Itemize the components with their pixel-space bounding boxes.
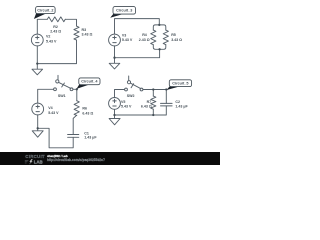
svg-text:Circuit_2: Circuit_2 [37, 8, 53, 12]
svg-text:R7: R7 [147, 100, 152, 104]
wire: C3 source bottom [114, 46, 116, 58]
node: C4 switch-R6 junction [76, 88, 78, 90]
resistor R6 [74, 101, 79, 116]
svg-text:6.43 Ω: 6.43 Ω [82, 111, 93, 115]
node: C3 top bus junction [158, 24, 160, 26]
svg-text:CIRCUIT: CIRCUIT [25, 154, 45, 159]
svg-text:R6: R6 [82, 106, 87, 110]
svg-text:5.43 V: 5.43 V [122, 38, 133, 42]
svg-text:Circuit_4: Circuit_4 [81, 80, 98, 84]
resistor R4 [151, 30, 156, 45]
svg-text:SW1: SW1 [58, 94, 66, 98]
wire: C3 left vertical + top rail [115, 19, 160, 34]
ground (C5) [109, 115, 120, 125]
svg-text:V4: V4 [48, 106, 52, 110]
resistor R7 [151, 96, 156, 109]
wire: C2 left vertical source-top to top rail [37, 19, 47, 34]
node: C3 ground junction [113, 57, 115, 59]
svg-text:R4: R4 [142, 33, 147, 37]
svg-text:http://circuitlab.com/c/paq362: http://circuitlab.com/c/paq36255d2c7 [47, 158, 105, 162]
voltage source V2 [31, 34, 43, 46]
node: C5 R7 top junction [152, 88, 154, 90]
svg-text:V3: V3 [122, 33, 126, 37]
node label Circuit_3 flag [110, 13, 124, 17]
svg-text:5.43 V: 5.43 V [48, 111, 59, 115]
svg-text:6.43 Ω: 6.43 Ω [141, 105, 152, 109]
ground (C2) [32, 64, 43, 75]
node label Circuit_4 box [79, 78, 100, 85]
svg-text:Circuit_5: Circuit_5 [172, 82, 188, 86]
node: C5 cap top junction [165, 88, 167, 90]
node: C3 bottom bus junction [158, 48, 160, 50]
node label Circuit_4 flag [77, 84, 90, 89]
ground (C4) [32, 128, 43, 137]
wire: C4 C1 bottom loop back to source [38, 128, 73, 148]
svg-text:R3: R3 [82, 28, 87, 32]
node label Circuit_2 flag [34, 13, 47, 19]
resistor R3 [74, 26, 79, 40]
wire: C4 source bottom [37, 115, 39, 128]
wire: C5 source top up and right to switch [115, 90, 125, 98]
switch SW2 [125, 88, 128, 91]
node: C5 R7 bottom junction [152, 114, 154, 116]
svg-text:R5: R5 [171, 33, 176, 37]
voltage source V5 [109, 98, 121, 110]
wire: C5 R7 drop [152, 90, 154, 97]
svg-text:3.43 Ω: 3.43 Ω [82, 32, 93, 36]
wire: C5 R7 bottom [152, 109, 154, 115]
wire: C4 source top up and right to switch [38, 89, 54, 103]
svg-text:5.43 V: 5.43 V [121, 105, 132, 109]
wire: C5 source bottom [114, 109, 116, 115]
node label Circuit_5 flag [167, 86, 181, 90]
svg-text:5.43 V: 5.43 V [46, 40, 57, 44]
svg-text:1.43 µF: 1.43 µF [175, 104, 188, 108]
voltage source V3 [109, 34, 121, 46]
svg-text:3.43 Ω: 3.43 Ω [171, 38, 182, 42]
node: C4 ground junction [37, 127, 39, 129]
switch SW1 [54, 88, 57, 91]
wire: C2 top rail right + drop to R3 [65, 19, 76, 26]
wire: C3 parallel bottom bus [153, 45, 166, 50]
wire: C2 right vertical + bottom rail [37, 40, 76, 64]
node label Circuit_3 box [113, 7, 136, 15]
wire: C5 cap bottom + bottom rail [115, 106, 167, 115]
voltage source V4 [32, 103, 44, 115]
svg-text:V2: V2 [46, 35, 50, 39]
resistor R5 [163, 30, 168, 45]
resistor R2 [47, 17, 65, 22]
wire: C5 cap branch top [165, 90, 167, 104]
svg-text:LAB: LAB [34, 159, 43, 164]
svg-text:V5: V5 [121, 100, 125, 104]
wire: C4 R6 to C1 (jog) [73, 115, 77, 134]
node: C5 ground junction [113, 114, 115, 116]
capacitor C1 [68, 135, 79, 138]
node label Circuit_2 box [36, 7, 56, 14]
wire: C5 top rail switch to cap branch [143, 89, 166, 91]
svg-text:C1: C1 [84, 131, 89, 135]
ground (C3) [109, 58, 120, 69]
svg-text:Circuit_3: Circuit_3 [116, 9, 132, 13]
svg-text:2.43 Ω: 2.43 Ω [139, 38, 150, 42]
node label Circuit_5 box [169, 80, 191, 87]
svg-text:R2: R2 [53, 25, 58, 29]
capacitor C2 [161, 103, 173, 106]
svg-text:SW2: SW2 [127, 94, 135, 98]
wire: C3 bottom drop + bottom rail [115, 49, 160, 57]
wire: C2 source bottom [36, 46, 38, 64]
wire: C4 switch to node + drop to R6 [73, 89, 77, 100]
svg-text:2.43 Ω: 2.43 Ω [50, 30, 61, 34]
node: C2 ground junction [36, 62, 38, 64]
wire: C3 parallel top bus [153, 25, 166, 30]
svg-text:1.43 µF: 1.43 µF [84, 136, 97, 140]
footer bar [0, 152, 220, 165]
